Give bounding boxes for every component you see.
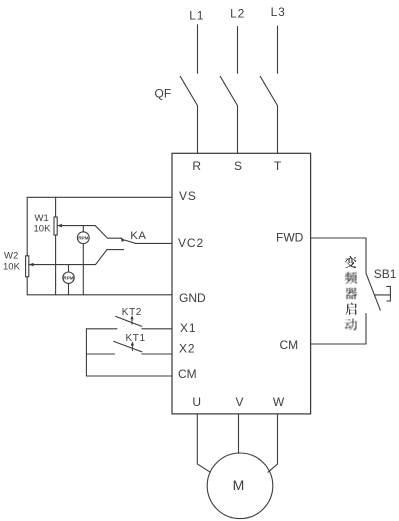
potentiometer W1 body — [54, 217, 57, 235]
label KT1 — [126, 333, 146, 344]
svg-text:T: T — [274, 159, 282, 173]
meter RPM2 wire bottom — [68, 283, 70, 294]
wire KT2 to X1 — [142, 328, 172, 330]
label SB1 — [374, 267, 397, 281]
svg-text:RPM: RPM — [78, 235, 88, 240]
terminal T — [274, 159, 282, 173]
pushbutton SB1 actuator bracket — [387, 286, 391, 301]
KA throw arrowhead — [120, 237, 125, 242]
svg-text:10K: 10K — [34, 223, 52, 234]
svg-text:SB1: SB1 — [374, 267, 397, 281]
wire QF pole 2 to terminal S — [237, 106, 239, 154]
label M — [233, 477, 245, 493]
terminal VC2 — [178, 236, 204, 250]
wire V output — [238, 414, 240, 454]
meter RPM2 text — [63, 275, 73, 280]
meter RPM1 text — [78, 235, 88, 240]
wire SB1 upper — [365, 238, 367, 273]
svg-text:CM: CM — [280, 338, 299, 352]
svg-text:GND: GND — [179, 291, 206, 305]
label W2 — [4, 251, 18, 262]
svg-text:FWD: FWD — [276, 231, 304, 245]
wire L3 down to QF — [277, 26, 279, 73]
meter RPM1 — [77, 232, 89, 244]
time contact KT2 arrow — [131, 319, 133, 325]
terminal GND — [179, 291, 206, 305]
svg-text:L2: L2 — [230, 7, 245, 21]
potentiometer W2 body — [26, 256, 29, 277]
terminal X1 — [180, 321, 196, 335]
wire CM bus — [86, 375, 172, 377]
svg-text:RPM: RPM — [63, 275, 73, 280]
svg-text:M: M — [233, 477, 245, 493]
svg-text:QF: QF — [155, 87, 172, 101]
terminal X2 — [179, 342, 195, 356]
label W1 — [35, 213, 49, 224]
svg-text:L1: L1 — [189, 9, 204, 23]
svg-text:W: W — [273, 395, 285, 409]
meter RPM2 — [63, 272, 74, 283]
terminal CM left — [178, 367, 197, 381]
terminal V — [235, 395, 243, 409]
label KA — [130, 230, 146, 242]
wire U output — [197, 414, 210, 472]
wire FWD to SB1 — [311, 237, 366, 239]
meter RPM1 wire top — [82, 226, 84, 232]
pushbutton SB1 actuator link — [374, 294, 390, 296]
breaker QF pole 1 blade — [180, 76, 197, 105]
svg-text:X2: X2 — [179, 342, 195, 356]
terminal VS — [179, 189, 197, 203]
breaker QF pole 2 blade — [220, 76, 237, 105]
svg-text:KT2: KT2 — [122, 307, 142, 318]
svg-text:V: V — [235, 395, 243, 409]
pushbutton SB1 blade — [366, 273, 380, 310]
wire QF pole 1 to terminal R — [197, 106, 199, 154]
wire W2 branch upper — [26, 197, 28, 256]
inverter box U1 — [172, 153, 311, 414]
terminal W — [273, 395, 285, 409]
relay contact KA blade — [125, 240, 135, 243]
time contact KT1 blade — [114, 341, 142, 351]
wire GND bus — [27, 294, 172, 296]
wire QF pole 3 to terminal T — [277, 106, 279, 154]
wire KT2 left — [86, 328, 117, 330]
terminal R — [192, 159, 201, 173]
wire W1 branch upper — [55, 197, 57, 217]
wire KT1 to X2 — [142, 353, 172, 355]
wire KT common vertical — [85, 329, 87, 376]
wire KT1 left — [86, 353, 114, 355]
breaker QF pole 3 blade — [260, 76, 277, 105]
terminal S — [234, 159, 242, 173]
node L3 — [271, 5, 286, 19]
svg-text:R: R — [192, 159, 201, 173]
motor M — [207, 453, 273, 519]
wire L2 down to QF — [237, 27, 239, 74]
node L2 — [230, 7, 245, 21]
svg-text:S: S — [234, 159, 242, 173]
wire KA common to VC2 — [135, 242, 172, 244]
svg-text:KT1: KT1 — [126, 333, 146, 344]
wire W1 wiper to KA upper throw — [57, 226, 121, 239]
svg-text:VC2: VC2 — [178, 236, 204, 250]
svg-text:CM: CM — [178, 367, 197, 381]
wire L1 down to QF — [197, 25, 199, 74]
wire W1 branch lower — [55, 235, 57, 295]
wire SB1 lower — [365, 314, 367, 345]
label QF — [155, 87, 172, 101]
node L1 — [189, 9, 204, 23]
svg-text:W1: W1 — [35, 213, 49, 224]
svg-text:U: U — [192, 395, 201, 409]
svg-text:KA: KA — [130, 230, 146, 242]
wire W output — [268, 414, 278, 472]
wire VS bus — [27, 196, 172, 198]
terminal FWD — [276, 231, 304, 245]
terminal U — [192, 395, 201, 409]
potentiometer W2 wiper arrow — [29, 263, 34, 267]
svg-text:W2: W2 — [4, 251, 18, 262]
label W2 value 10K — [3, 262, 21, 273]
svg-text:VS: VS — [179, 189, 197, 203]
svg-text:10K: 10K — [3, 262, 21, 273]
meter RPM1 wire bottom — [82, 244, 84, 295]
wire W2 wiper to KA lower throw — [29, 250, 124, 265]
svg-text:X1: X1 — [180, 321, 196, 335]
wire SB1 to CM — [311, 343, 366, 345]
terminal CM right — [280, 338, 299, 352]
label vertical 变频器启动 (inverter start) — [345, 256, 358, 330]
meter RPM2 wire top — [68, 265, 70, 272]
svg-text:L3: L3 — [271, 5, 286, 19]
time contact KT2 blade — [116, 316, 142, 326]
time contact KT1 arrow — [131, 345, 133, 351]
label W1 value 10K — [34, 223, 52, 234]
potentiometer W1 wiper arrow — [57, 224, 62, 228]
label KT2 — [122, 307, 142, 318]
wire W2 branch lower — [26, 277, 28, 295]
